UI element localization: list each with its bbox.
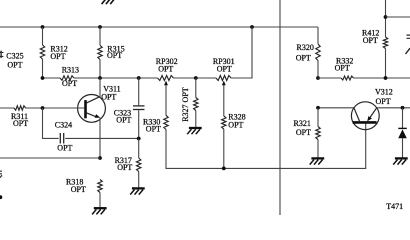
svg-text:C325: C325 [6, 51, 23, 60]
fragment stroke at left edge (y~176) [0, 175, 2, 177]
svg-text:R313: R313 [62, 65, 79, 74]
resistor R412 [383, 37, 387, 78]
svg-text:OPT: OPT [296, 53, 311, 62]
svg-text:OPT: OPT [57, 144, 72, 153]
svg-text:OPT: OPT [71, 185, 86, 194]
wiper arrow of RP302 [164, 81, 168, 116]
junction node base row [41, 106, 45, 110]
junction node R327 top [194, 76, 198, 80]
svg-text:OPT: OPT [217, 65, 232, 74]
wire C324 branch from base column [43, 108, 59, 138]
svg-text:OPT: OPT [335, 64, 350, 73]
svg-text:OPT: OPT [363, 36, 378, 45]
junction node on top bus at RP301 branch [250, 25, 254, 29]
potentiometer RP301 [216, 76, 231, 81]
junction node V311 collector / R315 [98, 76, 102, 80]
svg-text:OPT: OPT [7, 61, 22, 70]
transistor V311 [78, 95, 106, 123]
ground of R317 [130, 188, 145, 194]
junction node on top bus at R312 [41, 25, 45, 29]
resistor R320 [316, 44, 320, 78]
fragment component at left edge (y~171) [0, 171, 2, 174]
svg-text:T471: T471 [386, 202, 403, 211]
wire top bus corner into R320 [317, 27, 319, 44]
svg-text:OPT: OPT [101, 93, 116, 102]
junction node R320/R332 [316, 76, 320, 80]
svg-text:OPT: OPT [116, 116, 131, 125]
junction node on top bus at R315 [98, 25, 102, 29]
wire base row with resistor R311 [0, 107, 84, 109]
transistor V312 [351, 102, 379, 130]
wire lower-left bus [0, 157, 100, 159]
fragment arrow at right edge [406, 48, 410, 54]
wire R332 row [318, 77, 410, 79]
wire V311 collector [99, 78, 101, 97]
wire V312 right side to edge [377, 107, 410, 109]
junction node row-left (R313/R312/base column) [41, 76, 45, 80]
ground (cut off at top edge) [102, 0, 115, 4]
wire lower bus R330 to V312 base [166, 123, 366, 169]
capacitor C325 (cut off at left edge) [0, 51, 3, 59]
capacitor C323 [133, 78, 145, 139]
svg-text:C324: C324 [55, 120, 72, 129]
ground of diode [393, 158, 408, 164]
junction node R412 / top-right bus [384, 15, 388, 19]
wire long vertical section boundary [279, 0, 281, 215]
wire top supply bus [0, 26, 318, 28]
svg-text:OPT: OPT [376, 97, 391, 106]
svg-text:OPT: OPT [62, 79, 77, 88]
svg-text:OPT: OPT [146, 124, 161, 133]
resistor R327 [194, 78, 198, 127]
wire V311 emitter down to lower-left bus [99, 118, 101, 159]
resistor R318 [98, 180, 102, 208]
fragment node at left edge (y~197) [0, 195, 2, 199]
fragment capacitor at right edge [407, 35, 410, 38]
potentiometer RP302 [158, 76, 174, 81]
junction node R320/R321/V312 [316, 106, 320, 110]
junction node R412 bottom / R332 row [384, 76, 388, 80]
resistor R330 [164, 115, 168, 129]
svg-text:OPT: OPT [13, 119, 28, 128]
svg-text:OPT: OPT [117, 163, 132, 172]
svg-text:OPT: OPT [107, 51, 122, 60]
ground of R327 [187, 128, 202, 134]
resistor R321 [316, 108, 320, 158]
junction node C323 top [137, 76, 141, 80]
resistor R328 [222, 116, 226, 168]
svg-text:V312: V312 [375, 88, 393, 97]
svg-text:OPT: OPT [228, 120, 243, 129]
junction node diode top [401, 106, 405, 110]
svg-text:R327 OPT: R327 OPT [181, 87, 190, 122]
diode VD (clamp at V312) [398, 108, 407, 158]
wire R412 column from top edge [385, 0, 387, 37]
capacitor C324 [60, 133, 138, 144]
svg-text:OPT: OPT [158, 65, 173, 74]
svg-text:OPT: OPT [50, 52, 65, 61]
junction node emitter / bus [98, 156, 102, 160]
resistor R332 zigzag [341, 76, 354, 80]
svg-text:OPT: OPT [296, 128, 311, 137]
wire top-right bus [386, 16, 410, 18]
resistor R317 [137, 139, 141, 188]
junction node C323/C324/R317 [137, 137, 141, 141]
wire row with R313 / RP302 / RP301 rising to top bus [43, 27, 253, 78]
resistor R313 [60, 76, 74, 80]
ground of R321 [310, 158, 325, 164]
resistor R315 [98, 27, 102, 78]
wire V311-collector-row to V312 [318, 107, 354, 109]
ground of R318 [92, 208, 107, 214]
resistor R311 zigzag [14, 106, 26, 110]
wiper arrow of RP301 [222, 81, 226, 116]
junction node R328 bottom [222, 167, 226, 171]
resistor R312 [40, 27, 44, 78]
svg-text:R320: R320 [297, 43, 314, 52]
